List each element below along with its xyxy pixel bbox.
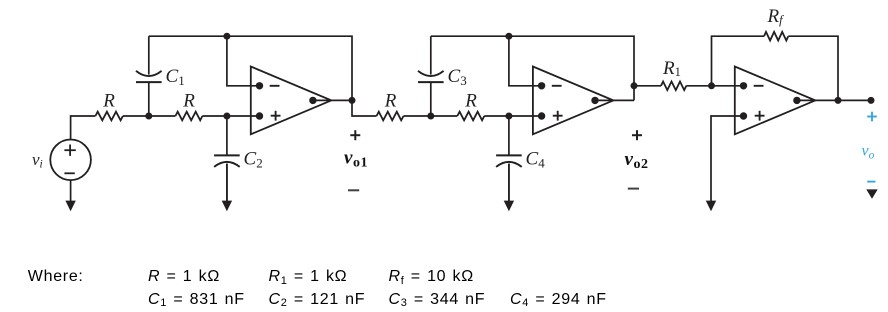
node A junction [145, 113, 152, 120]
wire Rf to output node [788, 36, 838, 100]
voltage source vi [50, 140, 91, 181]
ground at U3 + input [706, 201, 716, 212]
ground below C4 [508, 164, 510, 204]
node vo2 junction [631, 82, 638, 89]
top feedback wire stage 2 [431, 36, 634, 100]
svg-text:C1: C1 [166, 66, 185, 88]
op-amp U3 [735, 67, 816, 135]
node B junction [223, 113, 230, 120]
label minus output (blue) [867, 181, 875, 183]
tap junction on top wire [223, 33, 230, 40]
U3 non-inverting input pin [740, 112, 747, 119]
wire vo2 to R1 [634, 85, 661, 87]
node C junction [427, 113, 434, 120]
feedback loop with Rf [712, 36, 765, 86]
resistor R (fourth) [457, 112, 484, 121]
svg-text:R: R [464, 91, 477, 112]
capacitor C2 [226, 116, 228, 155]
value Rf [389, 268, 474, 286]
svg-text:vo1: vo1 [344, 148, 368, 171]
wire U2 output [613, 99, 634, 101]
capacitor C3 [430, 36, 432, 74]
U2 inverting input pin [538, 82, 545, 89]
top feedback wire stage 1 [149, 36, 352, 100]
value C3 [389, 291, 486, 309]
wire R to node C [404, 115, 458, 117]
tap junction on top wire stage 2 [505, 33, 512, 40]
resistor Rf [764, 32, 788, 41]
svg-text:R: R [102, 91, 115, 112]
value R1 [269, 268, 348, 286]
wire U1 output [331, 99, 352, 101]
node E junction [708, 82, 715, 89]
wire tap to U2 inverting input [509, 36, 542, 86]
U2 non-inverting input pin [538, 112, 545, 119]
svg-text:C2: C2 [244, 149, 263, 171]
output reference arrow [866, 189, 877, 198]
value R [148, 268, 220, 286]
value C1 [148, 291, 245, 309]
svg-text:C4: C4 [526, 149, 546, 171]
op-amp U2 [533, 67, 614, 135]
svg-text:C3: C3 [448, 66, 467, 88]
wire R to op-amp U2 + input [484, 115, 541, 117]
label minus below vo1 [348, 189, 359, 191]
where clause text [28, 268, 84, 286]
value C2 [269, 291, 366, 309]
resistor R (second) [175, 112, 202, 121]
U2 output pin [591, 97, 598, 104]
resistor R (third) [377, 112, 404, 121]
U1 non-inverting input pin [256, 112, 263, 119]
U3 output pin [793, 97, 800, 104]
svg-text:R: R [182, 91, 195, 112]
wire vi to R [71, 116, 96, 140]
value C4 [510, 291, 607, 309]
label minus below vo2 [628, 188, 639, 190]
node F junction (Rf meets output) [835, 97, 842, 104]
wire U3 output to terminal [815, 99, 871, 101]
svg-text:vo: vo [862, 143, 875, 162]
label + above vo1 [350, 134, 360, 136]
wire R to node A [123, 115, 175, 117]
wire R1 to U3 inverting input [686, 85, 744, 87]
svg-text:vo2: vo2 [625, 149, 649, 172]
label + output (blue) [867, 116, 877, 118]
node D junction [505, 113, 512, 120]
wire U3 + input to ground [711, 116, 744, 204]
ground at vi [70, 180, 72, 203]
label + above vo2 [632, 134, 642, 136]
op-amp U1 [251, 67, 331, 135]
wire tap to U1 inverting input [227, 36, 260, 86]
resistor R (input) [95, 112, 123, 121]
svg-text:R1: R1 [662, 58, 681, 79]
capacitor C4 [508, 116, 510, 155]
ground below C2 [226, 164, 228, 204]
node vo1 junction [349, 97, 356, 104]
output terminal node [868, 97, 875, 104]
svg-text:R: R [384, 91, 397, 112]
wire R to op-amp U1 + input [202, 115, 259, 117]
U1 inverting input pin [256, 82, 263, 89]
svg-text:Rf: Rf [767, 6, 785, 27]
U1 output pin [309, 97, 316, 104]
resistor R1 [661, 82, 686, 91]
svg-text:vi: vi [32, 150, 43, 171]
U3 inverting input pin [740, 82, 747, 89]
capacitor C1 [148, 36, 150, 74]
wire vo1 down to stage 2 [352, 100, 377, 116]
